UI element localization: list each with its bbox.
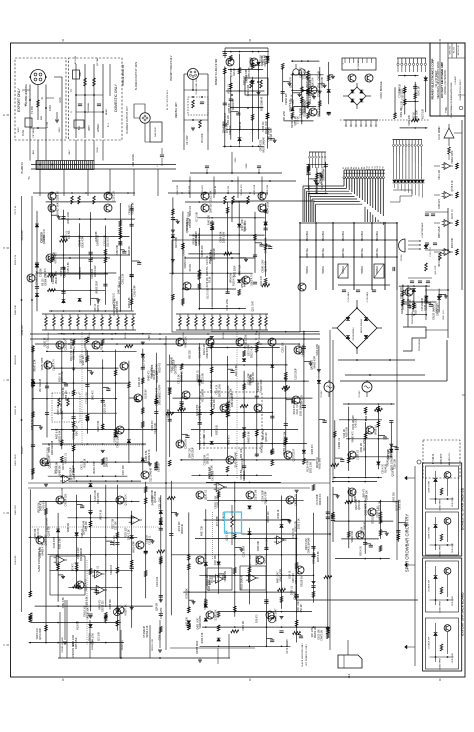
svg-text:VR433 6.8K: VR433 6.8K: [249, 431, 251, 444]
svg-text:C176 .01: C176 .01: [207, 255, 209, 265]
svg-text:D170 6.8K: D170 6.8K: [207, 287, 209, 298]
svg-text:C32 33K: C32 33K: [41, 268, 43, 277]
svg-text:VR147 2.2K: VR147 2.2K: [34, 359, 36, 372]
svg-text:D263 33K: D263 33K: [393, 492, 395, 503]
svg-text:R193 10K: R193 10K: [347, 426, 349, 437]
svg-text:VR485 4.7K: VR485 4.7K: [43, 543, 45, 556]
svg-text:D340 6.8K: D340 6.8K: [98, 235, 100, 246]
svg-text:SCR 106D: SCR 106D: [452, 543, 454, 553]
svg-text:D454 470: D454 470: [132, 288, 134, 299]
svg-text:R58 47PF: R58 47PF: [242, 277, 244, 288]
svg-text:D338 33K: D338 33K: [187, 588, 189, 599]
svg-text:R106 6.8K: R106 6.8K: [267, 184, 269, 195]
svg-text:C704 40KV: C704 40KV: [348, 291, 350, 302]
svg-text:D349 5%: D349 5%: [230, 126, 232, 135]
svg-text:C120 2.2K: C120 2.2K: [95, 490, 97, 501]
svg-text:R98 1K: R98 1K: [413, 112, 415, 120]
svg-text:DWG NO: DWG NO: [450, 45, 452, 54]
svg-text:R56 1M: R56 1M: [301, 604, 303, 612]
svg-text:CR254 220: CR254 220: [202, 245, 204, 257]
svg-text:CR290 220: CR290 220: [286, 93, 288, 105]
svg-text:R200 1/2W: R200 1/2W: [306, 538, 308, 550]
svg-text:80-473: 80-473: [454, 46, 456, 53]
svg-text:Q369 470: Q369 470: [152, 420, 154, 431]
svg-text:CR440 2.2K: CR440 2.2K: [223, 120, 225, 133]
svg-text:CLA: CLA: [348, 673, 351, 678]
svg-text:BLK BRN LINE ORG: BLK BRN LINE ORG: [26, 84, 28, 106]
svg-text:TR/BLU: TR/BLU: [362, 266, 364, 275]
svg-text:AC LINE: AC LINE: [74, 55, 77, 64]
svg-text:Q100 1K: Q100 1K: [392, 450, 394, 459]
svg-text:CR32 220: CR32 220: [130, 204, 132, 215]
svg-text:Q382 33K: Q382 33K: [35, 528, 37, 539]
svg-text:R326 2.2K: R326 2.2K: [202, 632, 204, 643]
svg-text:ALL RES 5%: ALL RES 5%: [448, 453, 451, 466]
svg-text:GRN/YEL: GRN/YEL: [307, 247, 309, 258]
svg-text:D205 1/2W: D205 1/2W: [310, 461, 312, 473]
svg-text:VR262 1K: VR262 1K: [182, 523, 184, 534]
svg-text:TYPE: TYPE: [446, 107, 448, 113]
svg-text:D373 1M: D373 1M: [255, 490, 258, 500]
svg-text:VR211 1/2W: VR211 1/2W: [245, 334, 248, 349]
svg-text:VR94 5%: VR94 5%: [231, 273, 233, 283]
svg-text:BI-AMP IN: BI-AMP IN: [21, 162, 24, 173]
svg-text:VR187 47PF: VR187 47PF: [42, 357, 44, 371]
svg-text:Q34 1M: Q34 1M: [156, 603, 158, 611]
svg-text:SCR 106D: SCR 106D: [452, 653, 454, 663]
svg-text:CR336 10K: CR336 10K: [292, 116, 294, 128]
svg-text:R308 2.2K: R308 2.2K: [62, 371, 64, 382]
svg-text:Q191 10K: Q191 10K: [227, 530, 229, 541]
svg-text:VR83 6.8K: VR83 6.8K: [254, 184, 256, 195]
svg-text:QD TAB: QD TAB: [96, 57, 99, 65]
svg-text:CR475 1M: CR475 1M: [322, 630, 324, 641]
svg-text:Q386 10K: Q386 10K: [250, 375, 252, 386]
svg-text:D59 1K: D59 1K: [265, 556, 268, 565]
svg-text:C160 .01: C160 .01: [297, 404, 299, 414]
svg-text:CR254 220: CR254 220: [260, 139, 262, 151]
svg-text:D38 .01: D38 .01: [95, 303, 97, 312]
svg-text:C267 .0047: C267 .0047: [298, 600, 300, 612]
svg-text:CR207 220: CR207 220: [64, 265, 66, 277]
svg-text:R401 2.2K: R401 2.2K: [211, 396, 213, 407]
svg-text:C476 470: C476 470: [44, 500, 46, 511]
svg-text:CR345 .0047: CR345 .0047: [263, 259, 265, 273]
svg-text:CKT BKR: CKT BKR: [33, 128, 35, 138]
svg-text:CR73 5%: CR73 5%: [241, 470, 243, 480]
svg-text:R411 1M: R411 1M: [15, 555, 17, 564]
svg-text:C358 47PF: C358 47PF: [249, 67, 251, 79]
svg-text:R191 6.8K: R191 6.8K: [60, 538, 62, 549]
svg-text:R44 22UF: R44 22UF: [245, 276, 247, 287]
svg-text:Q170 1/2W: Q170 1/2W: [364, 438, 366, 450]
svg-text:R172 1M: R172 1M: [410, 300, 412, 309]
svg-text:1/4 JACK TIP: 1/4 JACK TIP: [428, 636, 431, 649]
svg-text:R247 10K: R247 10K: [77, 425, 79, 436]
svg-text:R86 .0047: R86 .0047: [241, 447, 243, 458]
svg-text:Q356 33K: Q356 33K: [229, 103, 231, 114]
svg-text:F1 5A: F1 5A: [46, 121, 49, 128]
svg-text:Q367 1M: Q367 1M: [319, 71, 321, 80]
svg-text:TR14 MR501: TR14 MR501: [412, 311, 414, 324]
svg-text:VR273 47PF: VR273 47PF: [160, 384, 162, 398]
svg-text:R201 1/2W: R201 1/2W: [68, 211, 70, 223]
svg-text:CR96 47PF: CR96 47PF: [228, 385, 230, 397]
svg-text:C273 2.2K: C273 2.2K: [41, 231, 43, 242]
svg-text:W .25/ .47U PS W-V: W .25/ .47U PS W-V: [167, 90, 169, 110]
svg-text:R316 .01: R316 .01: [59, 372, 61, 382]
svg-text:R439 1K: R439 1K: [278, 509, 280, 518]
svg-text:CR292 4.7K: CR292 4.7K: [149, 449, 151, 462]
svg-text:GRN: GRN: [97, 147, 99, 152]
svg-text:CR30 47PF: CR30 47PF: [83, 236, 85, 248]
svg-text:VR230 1N4148: VR230 1N4148: [263, 137, 265, 153]
svg-text:CR375 100: CR375 100: [250, 555, 252, 567]
svg-text:VR238 10K: VR238 10K: [87, 607, 89, 619]
svg-text:R260 1/2W: R260 1/2W: [95, 265, 97, 277]
svg-text:CONN SPKR: CONN SPKR: [440, 657, 442, 669]
svg-text:CR1 4.7K: CR1 4.7K: [217, 384, 219, 394]
svg-text:D94 .01: D94 .01: [289, 570, 291, 579]
svg-text:CR251 1/2W: CR251 1/2W: [215, 495, 217, 509]
svg-text:R312 47PF: R312 47PF: [214, 247, 216, 259]
svg-text:CR260 47PF: CR260 47PF: [265, 491, 267, 505]
svg-text:D162 10K: D162 10K: [319, 629, 321, 640]
svg-text:R247 1M: R247 1M: [419, 86, 421, 95]
svg-text:CR47 220: CR47 220: [190, 447, 192, 458]
svg-text:Q330 .01: Q330 .01: [205, 489, 208, 500]
svg-text:CONN SPKR: CONN SPKR: [440, 498, 442, 510]
svg-text:.39 5W: .39 5W: [125, 332, 127, 340]
svg-text:Q350 1M: Q350 1M: [295, 116, 297, 125]
svg-text:C337 1M: C337 1M: [74, 351, 76, 360]
svg-text:Q172 10K: Q172 10K: [125, 494, 128, 506]
svg-text:R143 10K: R143 10K: [209, 215, 211, 226]
svg-text:R295 1N4148: R295 1N4148: [261, 96, 263, 111]
svg-text:C259 4.7K: C259 4.7K: [53, 359, 56, 371]
svg-text:C304 22UF: C304 22UF: [262, 489, 264, 501]
svg-text:C68 470: C68 470: [257, 614, 259, 623]
svg-text:C130 2.2K: C130 2.2K: [105, 235, 107, 246]
svg-text:D236 47PF: D236 47PF: [98, 492, 100, 504]
svg-text:C62 10K: C62 10K: [147, 534, 149, 543]
svg-text:R463 .0047: R463 .0047: [278, 571, 280, 583]
svg-text:CR3 2.2K: CR3 2.2K: [54, 251, 56, 261]
svg-text:EXPORT ONLY: EXPORT ONLY: [17, 87, 21, 111]
svg-text:Q145 1N4148: Q145 1N4148: [235, 452, 238, 468]
svg-text:CR104 4.7K: CR104 4.7K: [242, 458, 244, 471]
svg-text:C149 1/2W: C149 1/2W: [227, 298, 229, 310]
svg-text:ORG: ORG: [235, 157, 237, 162]
svg-text:Q131 1N4148: Q131 1N4148: [86, 348, 88, 363]
svg-text:Q383 220: Q383 220: [45, 534, 48, 546]
svg-text:R174 1/2W: R174 1/2W: [267, 201, 270, 214]
svg-text:Q215 2.2K: Q215 2.2K: [226, 122, 228, 133]
svg-text:D71 5%: D71 5%: [69, 231, 71, 239]
svg-text:R341 1M: R341 1M: [245, 222, 247, 231]
svg-text:(MODEL) SCHEMATIC: (MODEL) SCHEMATIC: [444, 69, 447, 94]
svg-text:D177 1M: D177 1M: [74, 340, 76, 349]
svg-text:D136 4.7K: D136 4.7K: [157, 395, 159, 406]
svg-text:Q326 47PF: Q326 47PF: [309, 184, 311, 196]
svg-text:R488 470: R488 470: [228, 435, 230, 446]
svg-text:CR435 1N4148: CR435 1N4148: [309, 537, 311, 553]
svg-text:Q490 .0047: Q490 .0047: [197, 617, 199, 630]
svg-text:SCALE NTS NO 80473: SCALE NTS NO 80473: [459, 79, 462, 101]
svg-text:VR387 1K: VR387 1K: [125, 604, 128, 616]
svg-text:C327 33K: C327 33K: [123, 465, 125, 476]
svg-text:ORG/BLU: ORG/BLU: [362, 230, 364, 241]
svg-text:REV B 9-81: REV B 9-81: [458, 44, 460, 55]
svg-text:VR433 22UF: VR433 22UF: [317, 180, 319, 194]
svg-text:100W 4 OHM: 100W 4 OHM: [429, 527, 431, 539]
svg-text:C142 10K: C142 10K: [92, 268, 94, 279]
svg-text:D134 47PF: D134 47PF: [199, 346, 201, 358]
svg-text:R376 6.8K: R376 6.8K: [176, 236, 178, 247]
svg-text:Q378 22UF: Q378 22UF: [155, 490, 157, 502]
svg-text:Q390 1N4148: Q390 1N4148: [200, 405, 202, 420]
svg-text:C314 10K: C314 10K: [367, 490, 369, 501]
svg-text:Q379 22UF: Q379 22UF: [293, 448, 296, 461]
svg-text:CR291 2.2K: CR291 2.2K: [74, 427, 76, 440]
svg-text:R382 470: R382 470: [160, 362, 162, 373]
svg-text:D178 10K: D178 10K: [207, 277, 209, 288]
svg-text:Q21 .0047: Q21 .0047: [252, 300, 254, 311]
svg-text:AC RECPT: AC RECPT: [357, 59, 360, 71]
svg-text:C126 47PF: C126 47PF: [54, 536, 56, 548]
svg-text:1 SHEET: 1 SHEET: [455, 75, 457, 85]
svg-text:Q350 1M: Q350 1M: [266, 432, 268, 441]
svg-text:Q373 2.2K: Q373 2.2K: [71, 338, 73, 349]
svg-text:CR262 10K: CR262 10K: [315, 626, 317, 638]
svg-text:P13: P13: [374, 166, 376, 169]
svg-text:TR15 MR501: TR15 MR501: [419, 338, 421, 351]
svg-text:Q491 220: Q491 220: [312, 359, 314, 370]
svg-text:T2 SEC: T2 SEC: [321, 390, 323, 398]
svg-text:GRN/YEL: GRN/YEL: [377, 247, 379, 258]
svg-text:C56 4.7K: C56 4.7K: [383, 464, 385, 474]
svg-text:C416 1M: C416 1M: [344, 429, 346, 438]
svg-text:C131 10K: C131 10K: [157, 576, 159, 587]
svg-text:CONN SPKR: CONN SPKR: [440, 544, 442, 556]
svg-text:D200 1K: D200 1K: [158, 463, 160, 472]
svg-text:.39 5W: .39 5W: [89, 332, 91, 340]
svg-text:D462 .0047: D462 .0047: [205, 553, 208, 567]
svg-text:Q363 6.8K: Q363 6.8K: [85, 337, 87, 348]
svg-text:C183 .0047: C183 .0047: [401, 286, 403, 298]
svg-text:CR344 1N4148: CR344 1N4148: [266, 237, 268, 253]
svg-text:CR121 220: CR121 220: [62, 487, 64, 499]
svg-text:D133 .01: D133 .01: [452, 209, 454, 219]
svg-text:VR266 6.8K: VR266 6.8K: [133, 202, 135, 215]
svg-text:R3 470: R3 470: [72, 563, 74, 571]
svg-text:SCR 106D: SCR 106D: [452, 596, 454, 606]
svg-text:D282 22UF: D282 22UF: [304, 104, 306, 116]
svg-text:R405 22UF: R405 22UF: [439, 226, 441, 238]
svg-text:Q341 1M: Q341 1M: [361, 443, 363, 452]
svg-text:R268 33K: R268 33K: [92, 640, 94, 650]
svg-text:Q53 10K: Q53 10K: [104, 403, 106, 412]
svg-text:TR/BLU: TR/BLU: [323, 266, 325, 275]
svg-text:P3: P3: [348, 167, 350, 169]
svg-text:C309 6.8K: C309 6.8K: [63, 387, 65, 398]
svg-text:R132 47PF: R132 47PF: [261, 379, 263, 391]
svg-text:R110 4.7K: R110 4.7K: [204, 435, 206, 446]
svg-text:VR218 33K: VR218 33K: [285, 431, 287, 443]
svg-text:VR178 4.7K: VR178 4.7K: [290, 99, 292, 112]
svg-text:Q455 100: Q455 100: [66, 390, 68, 401]
svg-text:CR498 100: CR498 100: [182, 370, 184, 382]
svg-text:C470 .01: C470 .01: [82, 460, 84, 470]
svg-text:D84 10K: D84 10K: [190, 218, 192, 227]
svg-text:D320 4.7K: D320 4.7K: [15, 254, 17, 265]
svg-text:CR326 5%: CR326 5%: [317, 457, 319, 468]
svg-text:VR157 6.8K: VR157 6.8K: [199, 233, 201, 246]
svg-text:240V: 240V: [59, 127, 61, 133]
svg-text:R298 .01: R298 .01: [229, 83, 231, 93]
svg-text:VR412 47PF: VR412 47PF: [452, 150, 454, 164]
svg-text:D77 6.8K: D77 6.8K: [196, 212, 198, 222]
svg-text:SW1: SW1: [80, 71, 82, 77]
svg-text:VR7 1N4148: VR7 1N4148: [40, 378, 42, 392]
svg-text:.39 5W: .39 5W: [48, 332, 50, 340]
svg-text:C406 22UF: C406 22UF: [205, 598, 207, 610]
svg-text:VR254 1M: VR254 1M: [193, 234, 195, 245]
svg-text:VR276 100: VR276 100: [37, 627, 39, 639]
svg-text:D460 470: D460 470: [93, 390, 95, 401]
svg-text:VR156 100: VR156 100: [98, 300, 100, 312]
svg-text:CR248 100: CR248 100: [80, 235, 82, 247]
svg-text:R338 5%: R338 5%: [207, 267, 209, 276]
svg-text:R117 470: R117 470: [443, 310, 445, 320]
svg-text:LOW CUT: LOW CUT: [22, 324, 24, 335]
svg-text:R139 47PF: R139 47PF: [308, 460, 310, 472]
svg-text:D296 33K: D296 33K: [215, 609, 218, 620]
svg-text:Q275 1M: Q275 1M: [379, 501, 381, 510]
svg-text:Q65 10K: Q65 10K: [187, 617, 189, 626]
svg-text:CR31 .01: CR31 .01: [263, 54, 265, 64]
svg-text:R424 100: R424 100: [225, 112, 227, 123]
svg-text:D12 1N4148: D12 1N4148: [150, 467, 153, 482]
svg-text:VR139 5%: VR139 5%: [38, 502, 40, 513]
svg-text:D453 4.7K: D453 4.7K: [32, 419, 34, 430]
svg-text:C281 2.2K: C281 2.2K: [122, 273, 124, 284]
svg-text:R66 10K: R66 10K: [168, 408, 170, 417]
svg-text:DOMESTIC LINE FILTER: DOMESTIC LINE FILTER: [216, 59, 218, 86]
svg-text:C253 10K: C253 10K: [283, 342, 285, 353]
svg-text:D214 4.7K: D214 4.7K: [38, 528, 40, 539]
svg-text:C80 2.2K: C80 2.2K: [179, 374, 181, 384]
svg-text:C326 22UF: C326 22UF: [243, 545, 245, 557]
svg-text:CR115 5%: CR115 5%: [122, 640, 124, 650]
svg-text:D206 1K: D206 1K: [57, 191, 60, 201]
svg-text:R175 10K: R175 10K: [422, 108, 424, 119]
svg-text:CR98 6.8K: CR98 6.8K: [221, 231, 223, 243]
svg-text:CR61 1N4148: CR61 1N4148: [268, 126, 270, 141]
svg-text:D201 470: D201 470: [310, 94, 312, 105]
svg-text:Q178 4.7K: Q178 4.7K: [266, 260, 268, 271]
svg-text:CR255 1/2W: CR255 1/2W: [318, 82, 321, 97]
svg-text:P16: P16: [382, 166, 384, 169]
svg-text:R77 47PF: R77 47PF: [217, 515, 219, 526]
svg-text:Q145 4.7K: Q145 4.7K: [291, 77, 293, 88]
svg-text:C362 5%: C362 5%: [61, 267, 63, 276]
svg-text:VR231 1M: VR231 1M: [61, 404, 63, 415]
svg-text:D62 .01: D62 .01: [56, 465, 58, 474]
svg-text:C138 1/2W: C138 1/2W: [425, 298, 427, 310]
svg-text:VR112 470: VR112 470: [157, 371, 159, 383]
svg-text:ORG/BLU: ORG/BLU: [377, 230, 379, 241]
svg-text:D33 10K: D33 10K: [389, 450, 391, 459]
svg-text:T1 PRI: T1 PRI: [31, 106, 34, 114]
svg-text:C379 47PF: C379 47PF: [307, 91, 309, 103]
svg-text:R136 100: R136 100: [190, 205, 192, 216]
svg-text:R420 6.8K: R420 6.8K: [98, 420, 100, 431]
svg-text:.39 5W: .39 5W: [259, 332, 261, 340]
svg-text:C292 10K: C292 10K: [214, 399, 216, 410]
svg-text:C4 1N4148: C4 1N4148: [211, 381, 213, 393]
svg-text:GRN/YEL: GRN/YEL: [323, 247, 325, 258]
svg-text:Q392 1K: Q392 1K: [365, 506, 367, 515]
svg-text:CR75 33K: CR75 33K: [400, 499, 402, 510]
svg-text:Q278 1/2W: Q278 1/2W: [392, 458, 394, 470]
svg-text:VR142 1/2W: VR142 1/2W: [56, 270, 58, 284]
svg-text:R205 6.8K: R205 6.8K: [318, 551, 320, 562]
svg-text:C229 1/2W: C229 1/2W: [218, 495, 220, 507]
svg-text:D424 6.8K: D424 6.8K: [129, 297, 131, 308]
svg-text:THERMAL: THERMAL: [87, 102, 90, 113]
svg-text:VR446 1N4148: VR446 1N4148: [229, 399, 232, 417]
svg-text:VR82 .0047: VR82 .0047: [57, 201, 60, 215]
svg-text:R294 33K: R294 33K: [256, 555, 258, 566]
svg-text:D138 1M: D138 1M: [145, 389, 147, 398]
svg-text:VR453 220: VR453 220: [262, 441, 264, 453]
svg-text:C78 47PF: C78 47PF: [301, 107, 303, 118]
svg-text:R105 10K: R105 10K: [32, 611, 34, 622]
svg-text:R386 6.8K: R386 6.8K: [296, 520, 298, 531]
svg-text:R209 100: R209 100: [125, 527, 127, 538]
svg-text:CR418 .0047: CR418 .0047: [271, 127, 273, 141]
svg-text:C8 10K: C8 10K: [212, 575, 214, 583]
svg-text:ORG/BLU: ORG/BLU: [307, 230, 309, 241]
svg-text:VR58 1K: VR58 1K: [375, 425, 378, 435]
svg-text:C20 1K: C20 1K: [240, 121, 242, 129]
svg-text:GRN: GRN: [246, 163, 248, 168]
svg-text:C166 22UF: C166 22UF: [209, 579, 211, 591]
svg-text:EXPORT SPR JACK BOARD: EXPORT SPR JACK BOARD: [461, 592, 465, 636]
svg-text:D182 .0047: D182 .0047: [293, 99, 295, 111]
svg-text:VR84 1M: VR84 1M: [68, 523, 70, 533]
svg-text:T1: T1: [27, 176, 31, 180]
svg-text:C483 4.7K: C483 4.7K: [295, 494, 298, 506]
svg-text:FLD. WND: FLD. WND: [437, 126, 441, 139]
svg-text:C705 40KV: C705 40KV: [367, 291, 369, 302]
svg-text:BLOWER OUTPUT CKT: BLOWER OUTPUT CKT: [126, 106, 129, 134]
svg-text:CR484 .01: CR484 .01: [198, 370, 200, 382]
svg-text:C354 6.8K: C354 6.8K: [322, 76, 324, 87]
svg-text:R420 220: R420 220: [153, 495, 155, 506]
svg-text:R246 1N4148: R246 1N4148: [52, 440, 54, 455]
svg-text:CR10 BRIDGE: CR10 BRIDGE: [379, 81, 383, 99]
svg-text:VR409 33K: VR409 33K: [352, 531, 354, 543]
svg-text:R326 33K: R326 33K: [258, 540, 260, 551]
svg-text:CR182 1N4148: CR182 1N4148: [62, 637, 64, 653]
svg-text:D414 33K: D414 33K: [452, 237, 454, 248]
svg-text:FAN 120V: FAN 120V: [154, 127, 157, 137]
svg-text:CR262 4.7K: CR262 4.7K: [44, 229, 46, 242]
svg-text:C431 1/2W: C431 1/2W: [78, 547, 80, 559]
svg-text:R1 2.2K: R1 2.2K: [402, 100, 404, 109]
